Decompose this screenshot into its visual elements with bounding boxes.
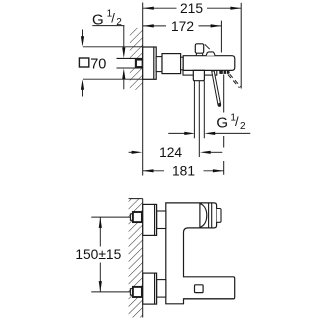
spout square hole (195, 285, 204, 293)
150 dim line (99, 217, 101, 246)
svg-text:181: 181 (172, 163, 195, 178)
boss detail lines (208, 203, 210, 228)
svg-text:172: 172 (171, 19, 194, 34)
escutcheon inner edge (153, 47, 155, 79)
wall line / left extension line top view (142, 3, 144, 176)
svg-text:G: G (92, 11, 104, 28)
bottom stub (130, 289, 133, 295)
bottom union cylinder (157, 280, 166, 298)
square70 arrows (82, 30, 84, 39)
dimension 172 (143, 25, 221, 27)
svg-text:/: / (235, 114, 239, 129)
union cylinder (156, 57, 162, 72)
extension line 181 right (223, 75, 225, 113)
G 1/2 arrows bottom (outlet width) (168, 132, 186, 134)
lever tip dark (218, 103, 221, 107)
lever handle (212, 71, 221, 106)
svg-text:70: 70 (90, 56, 106, 72)
under-plate (183, 70, 217, 75)
wall hatching bottom view (129, 199, 143, 318)
neck (181, 57, 184, 70)
body top view (183, 56, 235, 71)
dimension 181 (143, 170, 224, 172)
top union cylinder (157, 211, 166, 229)
supply pipe behind wall (117, 58, 143, 68)
lever pivot hump (206, 52, 215, 56)
150 extension lines (91, 216, 130, 218)
top escutcheon (143, 204, 157, 235)
svg-text:2: 2 (116, 17, 122, 28)
svg-text:G: G (216, 115, 228, 132)
nub (217, 209, 221, 223)
extension line 215 right (240, 3, 242, 89)
spout bottom inner edge (184, 298, 234, 300)
wall hatching top view (130, 28, 143, 90)
diagonal tick (205, 44, 210, 49)
knob feet (196, 53, 202, 56)
svg-text:215: 215 (180, 1, 203, 16)
wall line bottom view (142, 199, 144, 318)
svg-text:/: / (111, 10, 115, 25)
escutcheon top view (143, 47, 157, 79)
union nut B (162, 54, 181, 74)
knob on top (195, 44, 203, 53)
top nut (133, 212, 142, 222)
body silhouette (column + lever boss + spout) (166, 203, 235, 304)
D dome (200, 203, 207, 227)
top stub (130, 214, 133, 220)
dimension 215 (143, 7, 241, 9)
svg-text:124: 124 (159, 145, 182, 160)
union nut in wall (136, 60, 143, 68)
bottom nut (133, 287, 142, 297)
water jet dashes (228, 75, 240, 88)
dimension 124 (outside arrows) (129, 151, 134, 153)
G 1/2 leader top (92, 25, 124, 27)
aerator (219, 71, 229, 74)
svg-text:2: 2 (240, 121, 246, 132)
bottom escutcheon (143, 273, 157, 304)
svg-text:150±15: 150±15 (75, 247, 121, 262)
square70 extension lines (83, 46, 143, 48)
outlet centre extension (198, 81, 200, 157)
extension line 172 right (220, 21, 222, 53)
square symbol (79, 58, 88, 67)
shower outlet square (193, 70, 204, 80)
outlet thread lines (193, 81, 195, 139)
